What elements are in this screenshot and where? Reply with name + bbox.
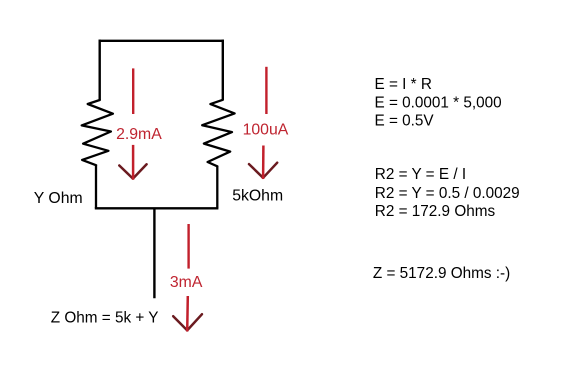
resistor R2 5kOhm zigzag	[202, 100, 234, 167]
current arrow I2 shaft lower	[262, 146, 265, 180]
current arrow I1 shaft lower	[132, 145, 135, 180]
current arrow I1 shaft upper	[132, 68, 134, 114]
svg-text:E = 0.5V: E = 0.5V	[375, 112, 435, 129]
svg-text:100uA: 100uA	[243, 122, 289, 139]
svg-text:E = I * R: E = I * R	[375, 76, 432, 93]
svg-text:Z Ohm = 5k + Y: Z Ohm = 5k + Y	[51, 310, 159, 327]
wire right vertical upper	[222, 40, 224, 100]
svg-text:E = 0.0001 * 5,000: E = 0.0001 * 5,000	[375, 94, 502, 111]
current arrow I3 shaft lower	[186, 296, 189, 332]
wire bottom horizontal	[95, 207, 219, 209]
wire left vertical upper	[98, 40, 100, 101]
svg-text:Z = 5172.9 Ohms :-): Z = 5172.9 Ohms :-)	[373, 265, 510, 282]
svg-text:Y Ohm: Y Ohm	[34, 190, 83, 207]
wire right vertical lower	[216, 166, 218, 209]
svg-text:3mA: 3mA	[170, 274, 203, 291]
wire center stub	[153, 208, 155, 298]
svg-text:R2 = 172.9 Ohms: R2 = 172.9 Ohms	[375, 203, 496, 220]
resistor R1 Y Ohm zigzag	[82, 100, 113, 165]
current arrow I2 shaft upper	[265, 67, 267, 114]
current arrow I3 head	[173, 314, 202, 330]
svg-text:5kOhm: 5kOhm	[232, 187, 283, 204]
current arrow I3 shaft upper	[187, 224, 189, 269]
wire top horizontal	[99, 40, 224, 42]
svg-text:2.9mA: 2.9mA	[116, 126, 162, 143]
svg-text:R2 = Y = 0.5 / 0.0029: R2 = Y = 0.5 / 0.0029	[375, 185, 520, 202]
wire left vertical lower	[95, 165, 97, 209]
current arrow I1 head	[119, 164, 146, 178]
svg-text:R2 = Y = E / I: R2 = Y = E / I	[375, 166, 466, 183]
current arrow I2 head	[249, 163, 277, 178]
